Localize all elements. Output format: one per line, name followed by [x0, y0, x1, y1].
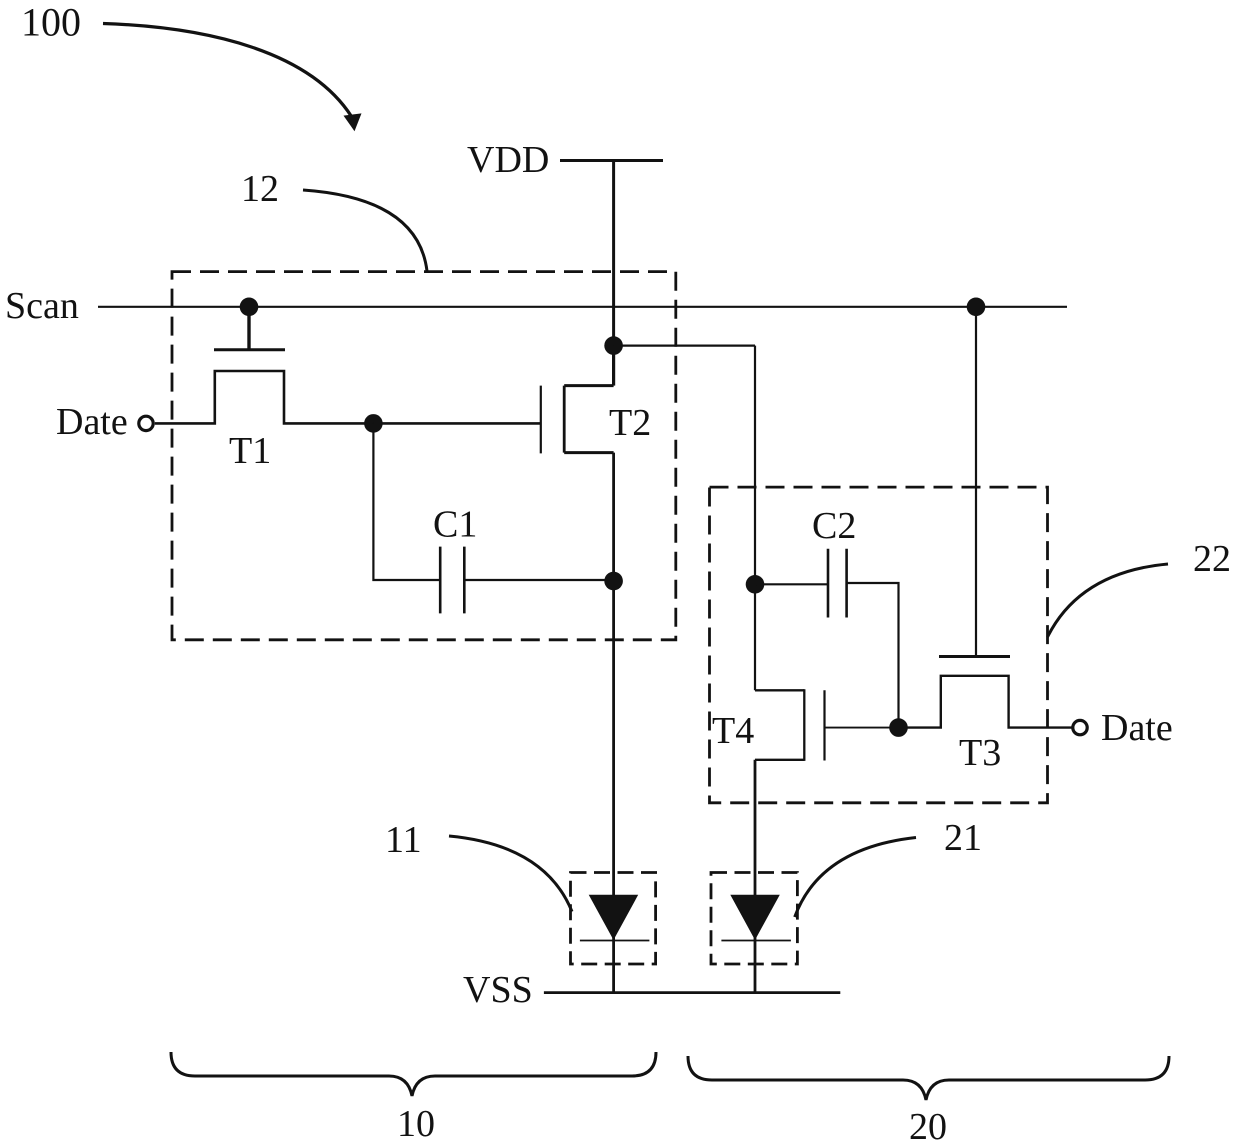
leader for 21: [795, 838, 916, 918]
svg-text:10: 10: [397, 1103, 435, 1145]
svg-text:21: 21: [944, 817, 982, 859]
svg-text:C2: C2: [812, 505, 856, 547]
capacitor C2 right plate: [845, 549, 848, 618]
node T1 drain / gate of T2: [364, 414, 383, 433]
wire node to T2 gate: [373, 422, 540, 425]
wire T2 source down to LED D1: [612, 453, 615, 993]
leader for 11: [449, 836, 572, 912]
LED D2 triangle: [730, 895, 780, 940]
transistor T3 gate bar: [939, 655, 1010, 658]
wire node down to C1: [373, 423, 440, 580]
capacitor C2 left plate: [827, 549, 830, 618]
LED D1 cathode bar: [580, 940, 650, 942]
node C2 left: [746, 575, 765, 594]
wire C2 right to gate node: [847, 583, 899, 728]
svg-text:T3: T3: [959, 732, 1001, 774]
transistor T3 channel: [899, 676, 1073, 728]
wire T2 drain node to second stage: [614, 345, 755, 347]
transistor T1 channel: [155, 371, 374, 423]
node on Scan at T1 gate: [240, 298, 259, 317]
svg-text:Date: Date: [56, 401, 128, 443]
Date terminal left: [139, 416, 153, 430]
brace for block 10: [171, 1052, 656, 1096]
transistor T4 gate lead: [825, 727, 899, 729]
transistor T4 channel: [803, 689, 805, 761]
svg-text:T4: T4: [712, 710, 754, 752]
LED D2 dashed box: [711, 873, 797, 965]
transistor T2 source jog: [564, 451, 613, 454]
LED D2 cathode bar: [721, 940, 791, 942]
node Scan right: [967, 298, 986, 317]
transistor T1 gate lead: [247, 307, 250, 350]
wire Scan line: [98, 306, 1067, 308]
capacitor C1 right plate: [463, 547, 466, 614]
transistor T4 gate bar: [823, 690, 825, 760]
svg-text:C1: C1: [433, 504, 477, 546]
leader arrow for 100: [103, 24, 352, 117]
svg-text:Date: Date: [1101, 707, 1173, 749]
transistor T1 gate bar: [214, 348, 285, 351]
transistor T2 drain jog: [564, 384, 613, 387]
transistor T2 channel: [563, 386, 566, 453]
wire node down to T4: [754, 584, 756, 690]
LED D1 triangle: [589, 895, 639, 940]
VSS rail: [544, 991, 840, 994]
svg-text:12: 12: [241, 168, 279, 210]
node VDD to T2: [604, 336, 623, 355]
leader for 22: [1048, 564, 1169, 637]
brace for block 20: [688, 1056, 1169, 1100]
leader for 12: [303, 190, 427, 271]
transistor T4 drain jog: [755, 689, 804, 691]
VDD rail bar: [560, 159, 663, 162]
svg-text:20: 20: [909, 1106, 947, 1148]
svg-text:100: 100: [21, 0, 81, 45]
svg-text:22: 22: [1193, 538, 1231, 580]
svg-text:VDD: VDD: [467, 139, 549, 181]
wire down into box 22: [754, 346, 756, 585]
wire node to C2: [755, 583, 828, 585]
svg-text:Scan: Scan: [5, 285, 79, 327]
svg-text:T2: T2: [609, 402, 651, 444]
transistor T4 source jog: [755, 759, 804, 761]
subcircuit box 12 (dashed): [172, 272, 676, 640]
wire node down to T2 drain: [612, 346, 615, 386]
LED D1 dashed box: [571, 873, 656, 965]
wire C1 to drain node: [464, 579, 613, 581]
subcircuit box 22 (dashed): [710, 487, 1048, 803]
capacitor C1 left plate: [439, 547, 442, 614]
wire Scan to T3 gate: [975, 307, 977, 657]
svg-text:VSS: VSS: [463, 969, 533, 1011]
wire T4 source down to LED D2: [754, 760, 757, 993]
node C1 right: [604, 572, 623, 591]
svg-text:11: 11: [385, 819, 422, 861]
Date terminal right: [1073, 720, 1087, 734]
wire VDD vertical: [612, 161, 615, 346]
node T3/T4 gate: [889, 718, 908, 737]
svg-text:T1: T1: [229, 430, 271, 472]
transistor T2 gate bar: [540, 386, 542, 454]
